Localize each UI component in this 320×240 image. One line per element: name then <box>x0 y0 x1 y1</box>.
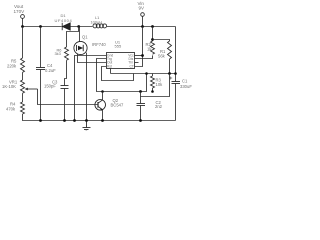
capacitor C2 label <box>155 100 163 109</box>
svg-text:2n2: 2n2 <box>155 104 163 109</box>
node Vin terminal <box>141 13 145 27</box>
node junction Vin on rail <box>141 25 144 28</box>
svg-text:Q1: Q1 <box>82 35 88 40</box>
wire Q2 emitter to rail <box>102 110 104 121</box>
wire switch node jog to R6 <box>67 27 79 48</box>
potentiometer VR1 label <box>2 80 18 90</box>
wire CT bottom pin <box>110 68 112 73</box>
wire R5 to VR1 <box>22 72 24 80</box>
svg-text:56k: 56k <box>158 54 166 59</box>
svg-text:9V: 9V <box>139 5 145 10</box>
node junction Q2 collector on bus <box>101 90 104 93</box>
node junction CT/bracket <box>145 72 148 75</box>
svg-text:1K-10K: 1K-10K <box>2 84 16 89</box>
svg-text:170V: 170V <box>14 9 26 14</box>
wire pin Thr stub <box>135 62 139 64</box>
resistor R3 label <box>156 78 164 88</box>
capacitor C1 plus sign <box>169 77 172 80</box>
svg-text:CT: CT <box>130 64 134 68</box>
wire top rail left <box>23 26 62 28</box>
wire pin Vcc to Vin column <box>135 55 143 57</box>
wire diode to switch node <box>71 26 93 28</box>
wire Q1 gate down to Out row <box>78 54 107 63</box>
svg-text:220k: 220k <box>7 64 17 69</box>
svg-text:3k3: 3k3 <box>55 51 61 56</box>
svg-text:IRF740: IRF740 <box>92 42 106 47</box>
wire R6 to C3 <box>65 60 67 85</box>
node switch junction <box>77 25 80 28</box>
wire R3 bottom to bus <box>152 88 154 92</box>
node junction bottom rail dots <box>39 119 142 122</box>
svg-text:555: 555 <box>115 44 122 49</box>
node junction R2 column on rail <box>151 25 154 28</box>
resistor R2 label <box>146 42 153 52</box>
diode D1 label <box>55 13 73 23</box>
inductor L1 label <box>91 15 103 24</box>
transistor Q2 collector <box>98 92 103 104</box>
resistor R3 <box>151 76 155 88</box>
node junction R2/R1 top <box>151 38 154 41</box>
node junction C4 column on rail <box>39 25 42 28</box>
wire top rail right <box>107 26 176 28</box>
resistor R6 <box>65 47 69 60</box>
capacitor C2 <box>137 104 146 106</box>
svg-text:150pF: 150pF <box>44 84 56 89</box>
resistor R6 label <box>55 47 62 56</box>
IC U1 label <box>115 40 122 49</box>
wire right edge down to C1 <box>175 27 177 82</box>
transistor Q2 internals <box>97 102 99 108</box>
svg-text:100uH: 100uH <box>91 19 103 24</box>
IC U1 pin names <box>107 53 134 68</box>
svg-text:0.2uF: 0.2uF <box>45 68 56 73</box>
resistor R4 label <box>6 102 16 112</box>
wire drain from rail to Q1 <box>79 27 81 42</box>
node junction R1/CT <box>168 72 171 75</box>
resistor R5 label <box>7 59 17 69</box>
wire base feedback from wiper <box>38 89 99 105</box>
wire R2 top from rail <box>152 27 154 42</box>
wire C4 to bottom rail <box>40 70 42 121</box>
svg-text:470k: 470k <box>6 107 16 112</box>
potentiometer VR1 wiper arrow <box>25 88 38 91</box>
node Vin label <box>138 1 145 11</box>
ground <box>83 121 91 132</box>
node Vout terminal <box>21 15 25 27</box>
transistor Q2 emitter <box>98 106 103 110</box>
resistor R5 <box>21 58 25 72</box>
wire left column upper <box>22 27 24 59</box>
svg-text:10k: 10k <box>156 82 164 87</box>
wire C1 to bottom rail <box>175 84 177 121</box>
capacitor C3 label <box>44 79 58 88</box>
wire C3 to bottom rail <box>64 89 66 121</box>
transistor Q1 label <box>82 35 106 48</box>
resistor R1 label <box>158 49 166 59</box>
wire CT row long <box>111 73 176 75</box>
capacitor C1 label <box>180 79 192 90</box>
wire Vin column down to CT row <box>135 27 143 67</box>
transistor Q2 label <box>111 98 124 107</box>
node Vout label <box>14 4 26 14</box>
capacitor C4 <box>36 68 45 70</box>
svg-text:BC547: BC547 <box>111 102 124 107</box>
wire Q1 source to ground rail <box>86 53 88 121</box>
wire R1 bottom to CT row <box>169 59 171 74</box>
svg-text:C1: C1 <box>182 79 188 84</box>
diode D1 <box>62 23 70 30</box>
potentiometer VR1 <box>21 80 25 93</box>
wire pin Rst bracket <box>102 67 134 81</box>
transistor Q1 internals <box>77 45 84 51</box>
inductor L1 <box>93 24 107 28</box>
IC U1 555 box <box>107 53 135 69</box>
resistor R1 <box>168 41 172 59</box>
wire R1 top link <box>153 40 170 42</box>
transistor Q1 body <box>74 41 87 54</box>
wire lower bus to R1 column <box>141 74 170 97</box>
wire VR1 to R4 <box>22 93 24 102</box>
wire pin Gnd to ground <box>75 56 107 121</box>
svg-text:330uF: 330uF <box>180 84 192 89</box>
transistor Q2 body <box>95 100 106 111</box>
node junction Vcc/Vin <box>141 54 144 57</box>
svg-text:Rst: Rst <box>107 64 112 68</box>
node junction R3/bus <box>151 90 154 93</box>
wire C4 column upper <box>40 27 42 68</box>
capacitor C2 stubs <box>140 92 142 104</box>
capacitor C1 <box>172 82 181 84</box>
capacitor C4 label <box>45 63 56 73</box>
node junction left column on rail <box>21 25 24 28</box>
resistor R2 <box>151 41 155 54</box>
capacitor C3 <box>61 86 69 89</box>
wire R4 to bottom rail corner <box>23 114 176 121</box>
wire pin Dis to R2 bottom <box>135 55 153 58</box>
wire pin Trg bracket <box>97 59 147 92</box>
svg-text:UF4004: UF4004 <box>55 18 73 23</box>
resistor R4 <box>21 102 25 114</box>
node junction CT/right edge <box>174 72 177 75</box>
node junction C2 column on bus <box>139 90 142 93</box>
wire R3 top stub <box>152 74 154 77</box>
